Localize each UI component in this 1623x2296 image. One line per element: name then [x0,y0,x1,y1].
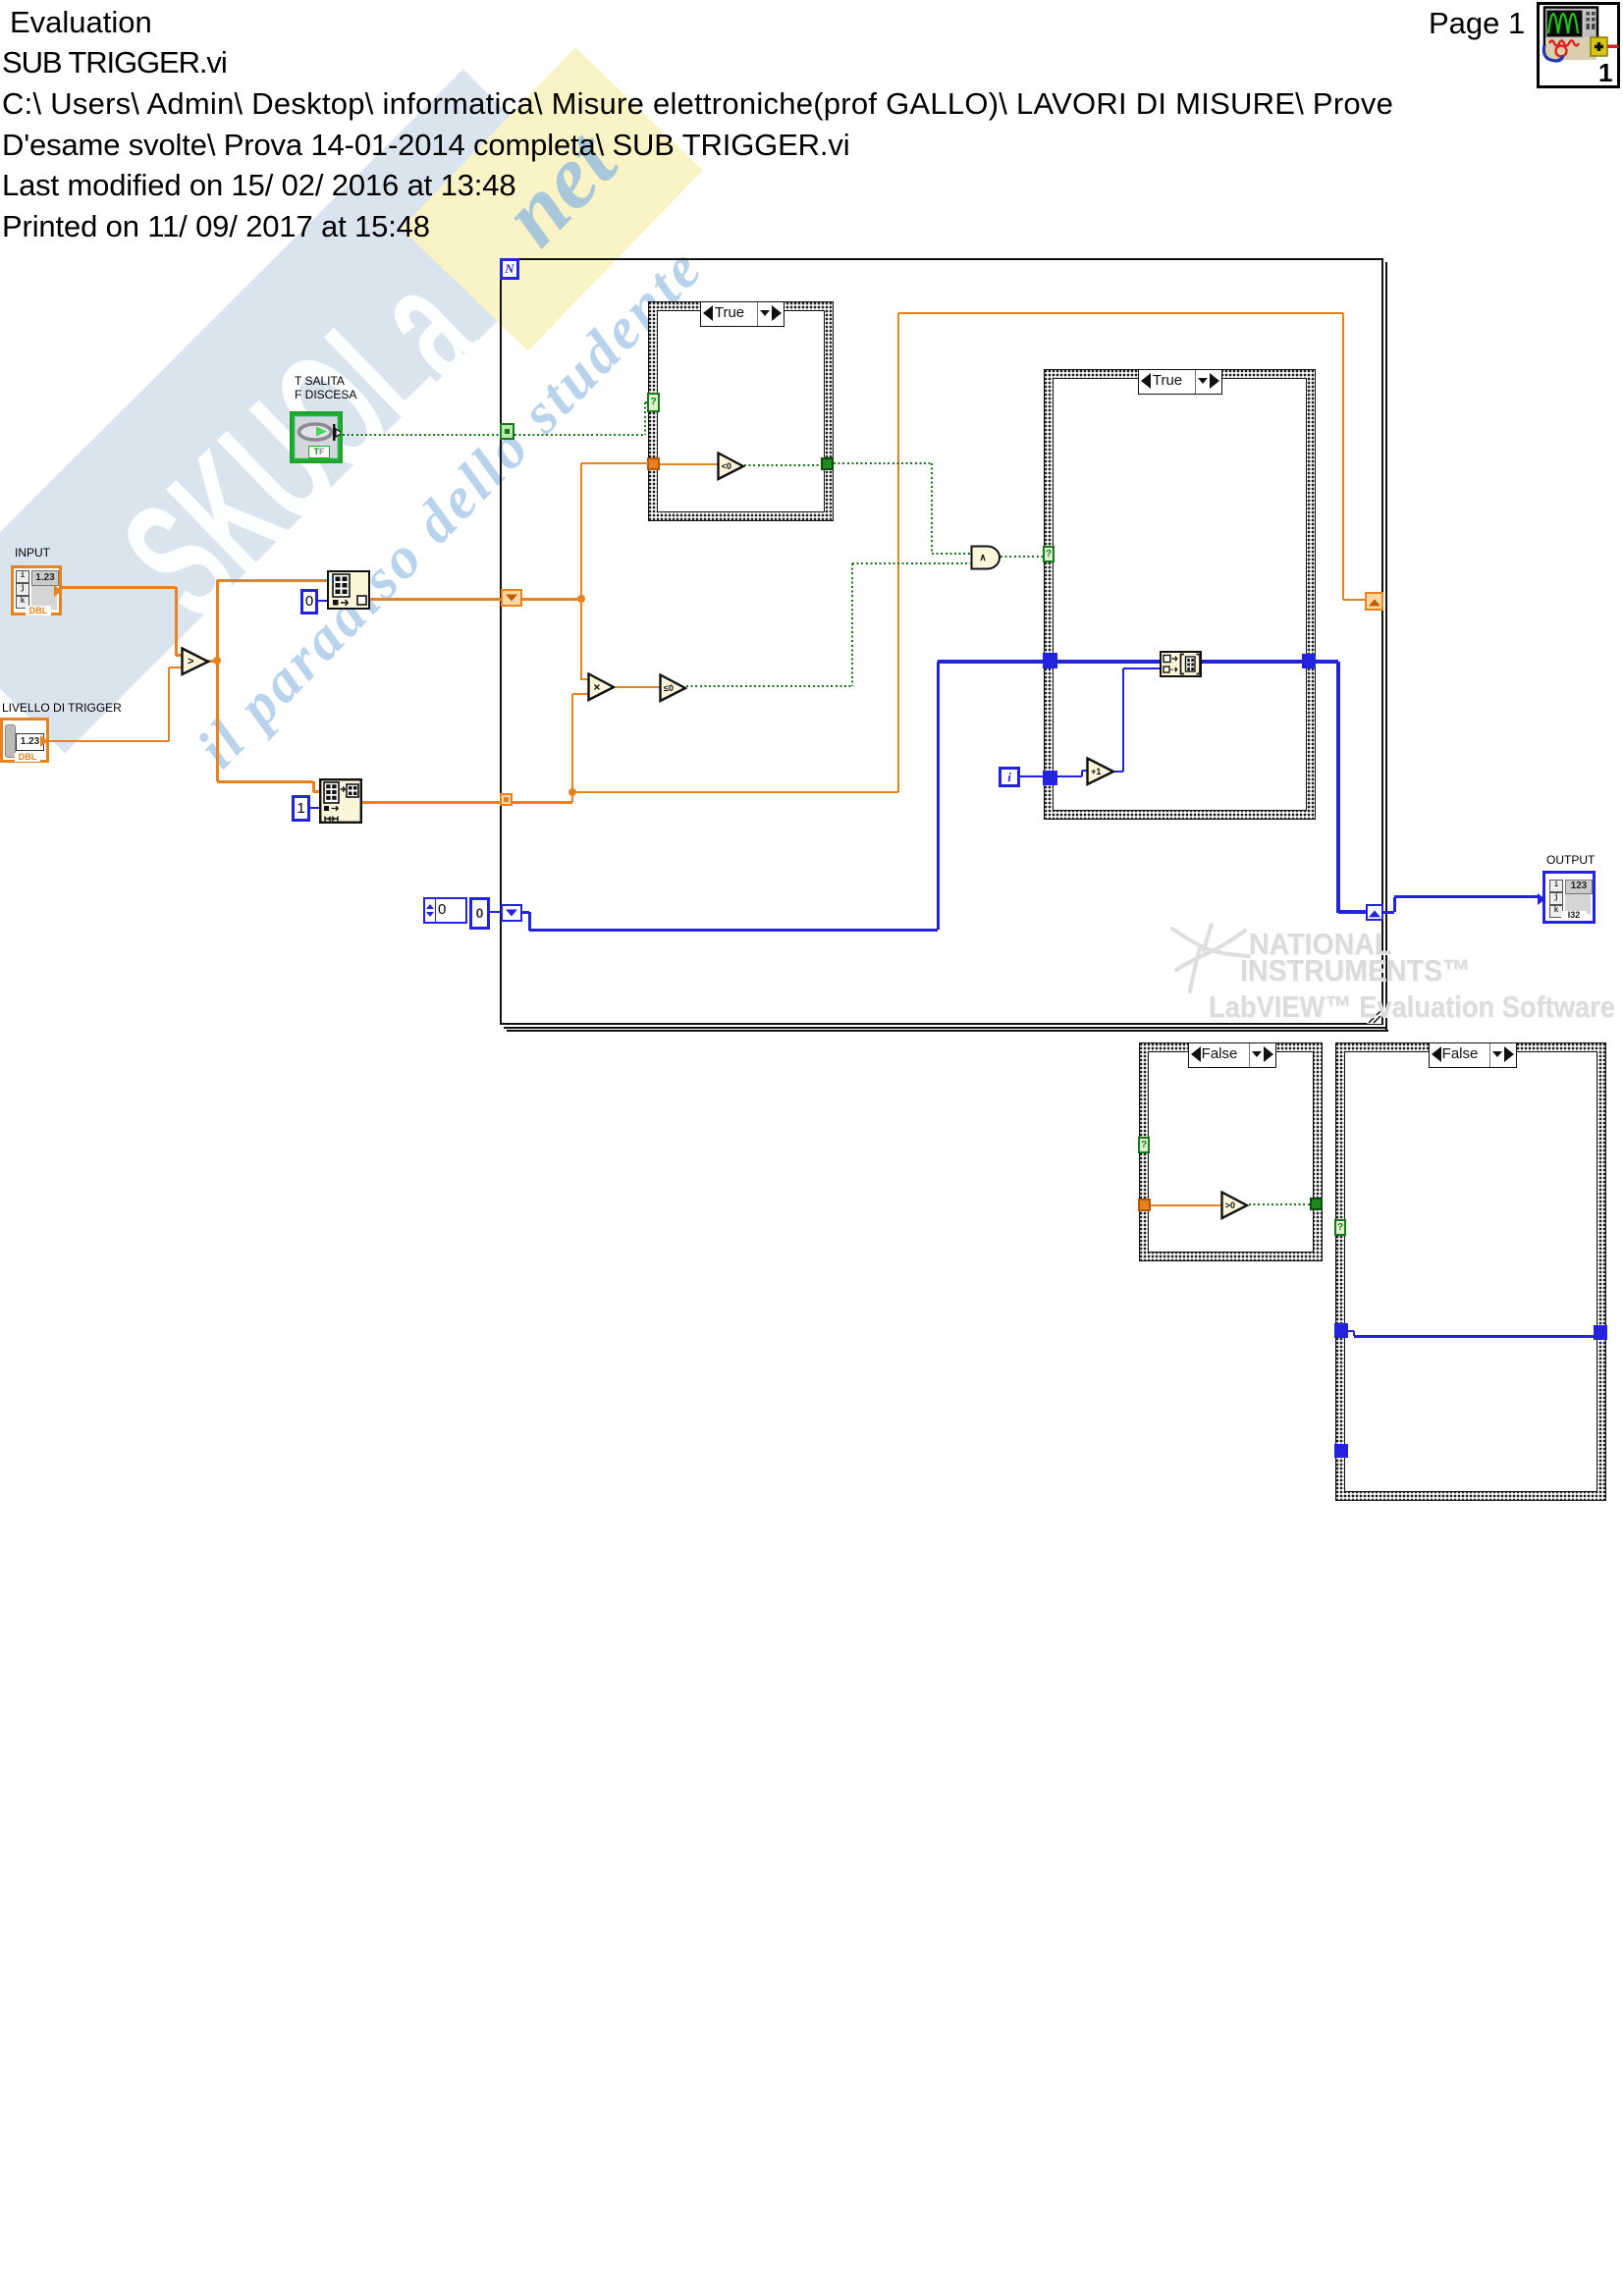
wire: array subset out [361,801,501,804]
watermark script il paradiso dello studente [184,234,710,775]
case3 tunnel orange in [1138,1199,1151,1211]
svg-text:≤0: ≤0 [664,683,674,693]
for-loop bottom shadow 1 [504,1027,1387,1029]
case2 tunnel blue in [1043,653,1057,668]
case2 tunnel blue out [1302,654,1316,668]
watermark SKUOLa letters [85,233,497,638]
case 2 selector label True [1138,369,1222,395]
case structure 3 (False) [1139,1042,1323,1261]
shift register blue (left) [501,904,522,922]
case1 selector tunnel ? [647,393,660,412]
for-loop bottom shadow 2 [507,1030,1388,1032]
wire: INPUT array to compare [62,586,176,589]
svg-text:+1: +1 [1091,767,1101,776]
wire: shift register to case1/multiply [522,598,582,601]
for-loop right shadow [1385,262,1387,1030]
array subset node [319,778,362,824]
index array node [327,570,370,610]
constant 1 (index) [292,795,310,822]
wire: increment out up to replace subset [1114,771,1123,773]
constant 0 (index) [300,589,318,614]
wire: case1 inside orange to less-than-0 [660,463,718,465]
case 4 selector label False [1429,1042,1517,1068]
numeric constant with increment/decrement (counter init) [423,897,467,924]
radix box [469,897,490,930]
label INPUT [15,546,50,560]
svg-text:∧: ∧ [979,553,986,563]
wire: case2 inside blue build array [1057,660,1161,664]
iteration terminal i (case2) [999,767,1020,787]
watermark yellow patch [401,47,702,350]
wire: case3 orange to greater0 [1151,1204,1221,1206]
AND gate node [970,545,1001,570]
increment node (case2) [1086,757,1115,786]
less-than-0 node (case1) [717,452,745,481]
wire: case2 blue out to right loop tunnel [1316,660,1338,664]
watermark skuola.net band [0,69,607,753]
loop tunnel orange (right) [1365,592,1383,611]
case4 tunnel blue in [1334,1323,1348,1338]
INPUT array control [11,565,62,615]
junction dot J2 [577,595,585,603]
wire: lesseq0 out to AND [686,685,852,687]
junction dot J1 [213,657,221,665]
wire: 1 constant to array subset [310,807,320,809]
loop tunnel blue (right) [1366,904,1383,921]
svg-text:1: 1 [1598,58,1612,87]
label OUTPUT [1546,853,1595,867]
wire: i terminal to increment [1020,775,1044,777]
OUTPUT array indicator [1542,871,1596,924]
case4 tunnel blue unwired [1334,1444,1348,1458]
wire: case4 blue through [1348,1330,1354,1332]
boolean control T SALITA F DISCESA [290,411,343,463]
wire: less0 out to case1 tunnel [744,464,821,466]
case2 tunnel blue i in [1043,771,1057,785]
wire: blue shift register to case2 [522,911,529,914]
wire: loop tunnel to OUTPUT [1383,911,1394,914]
case1 tunnel orange in [647,457,660,470]
case4 selector tunnel ? [1334,1219,1346,1236]
for-loop border [500,258,1383,1025]
case3 selector tunnel ? [1138,1137,1150,1153]
wire: long orange loop to right tunnel [572,791,898,793]
wire: loop tunnel to case1 selector [514,434,645,436]
label T SALITA / F DISCESA [295,374,356,401]
case1 tunnel boolean out [821,457,834,470]
case structure 4 (False) [1335,1042,1606,1501]
for-loop N count terminal [500,258,519,280]
wire: compare output junction [207,660,218,663]
VI icon (oscilloscope) top-right [1537,2,1620,88]
loop tunnel boolean (left) [500,423,514,440]
case4 tunnel blue out [1594,1325,1607,1340]
compare greater? node [181,647,210,676]
loop tunnel orange (left lower) [500,793,513,806]
case3 tunnel boolean out [1310,1198,1323,1210]
wire: 0 constant to index array [317,600,328,602]
svg-text:>: > [188,656,193,667]
wire: case3 greater0 to out tunnel [1249,1203,1311,1205]
wire: counter to blue shift register [490,911,502,913]
wire: T SALITA boolean to loop [343,434,500,436]
case structure 1 (True) [648,301,834,521]
replace array subset node (case2) [1160,651,1202,677]
case2 selector tunnel ? [1043,546,1055,562]
svg-text:×: × [593,680,600,694]
LIVELLO DI TRIGGER numeric control [0,718,49,763]
shift register orange (left) [501,589,522,607]
wire: LIVELLO DI TRIGGER to compare [48,740,169,742]
case 1 selector label True [700,301,784,327]
for-loop resize corner [1367,1010,1381,1024]
National Instruments watermark [1166,919,1257,1003]
svg-text:<0: <0 [722,461,731,471]
less-equal-0 node [659,673,687,703]
greater-than-0 node (case3) [1220,1191,1249,1220]
label LIVELLO DI TRIGGER [2,701,122,715]
wire: index array out to shift register [369,598,502,601]
wire: case1 out to AND [834,462,932,464]
case 3 selector label False [1188,1042,1276,1068]
header text [10,5,152,40]
wire: AND out to case2 selector [1001,556,1044,558]
junction dot J3 [568,788,576,796]
watermark net script [481,110,626,255]
wire: multiply out to lesseq0 [616,686,661,688]
multiply node [587,672,616,702]
svg-text:>0: >0 [1225,1201,1235,1210]
case structure 2 (True) [1044,369,1316,820]
